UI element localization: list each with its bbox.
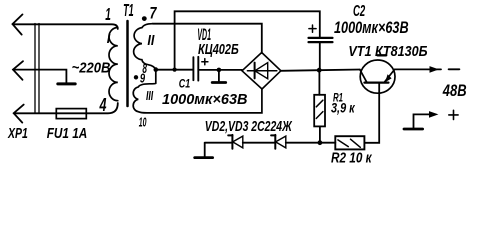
zener VD2	[231, 135, 233, 149]
ground at C1 node	[218, 70, 220, 81]
output wire minus	[395, 68, 441, 70]
svg-text:Т1: Т1	[123, 0, 134, 20]
chassis ground at output	[404, 128, 423, 131]
wire VD3 to node	[286, 142, 336, 144]
C2 lead down	[319, 42, 321, 70]
VT1 emitter diagonal	[384, 69, 394, 82]
VT1 emitter arrow	[385, 74, 392, 82]
connector XP1 pin arrow middle	[13, 61, 23, 80]
junction dot 9 polarity	[134, 75, 138, 79]
C2 plus sign	[309, 25, 316, 32]
main line bridge to transistor	[281, 70, 360, 71]
svg-text:R2 10 к: R2 10 к	[331, 150, 373, 167]
svg-text:3,9 к: 3,9 к	[331, 100, 355, 116]
R1 power slashes	[316, 100, 323, 118]
transformer T1 winding II	[134, 24, 156, 70]
chassis ground bar (mains)	[58, 82, 75, 85]
wire L (arrow1 to winding I top)	[13, 24, 118, 29]
C1 plus sign	[202, 59, 208, 65]
wire rail vertical	[175, 11, 320, 69]
svg-text:С1: С1	[179, 78, 190, 90]
svg-text:ХР1: ХР1	[7, 126, 28, 142]
resistor R1 body	[314, 95, 325, 127]
R2 power slashes	[338, 139, 360, 147]
svg-text:1000мк×63В: 1000мк×63В	[334, 19, 409, 37]
junction C2/R1/main	[317, 68, 322, 73]
connector XP1 boundary lines	[35, 24, 39, 114]
wire terminal 7 to bridge top	[153, 24, 262, 53]
svg-text:III: III	[146, 89, 154, 103]
svg-text:4: 4	[99, 95, 107, 115]
fuse FU1	[56, 109, 86, 119]
capacitor C2 plates	[309, 38, 333, 42]
VD1 inner diode	[247, 70, 276, 72]
wire bottom pin to fuse and winding I bottom	[14, 103, 118, 113]
svg-text:II: II	[147, 33, 155, 49]
wire ground to VD2	[205, 142, 233, 144]
output plus terminal wire	[414, 114, 432, 127]
svg-text:48В: 48В	[442, 82, 467, 100]
connector XP1 pin arrow bottom	[14, 105, 24, 123]
svg-text:~220В: ~220В	[72, 60, 111, 77]
output arrowhead plus	[429, 111, 438, 118]
wire VD2 to VD3	[243, 142, 275, 144]
transformer T1 winding III	[133, 70, 262, 113]
svg-text:КЦ402Б: КЦ402Б	[198, 41, 239, 58]
node 8-9 junction wire to C1	[156, 69, 193, 71]
svg-text:VD2,VD3 2С224Ж: VD2,VD3 2С224Ж	[205, 118, 293, 135]
transformer T1 winding I	[109, 28, 118, 101]
plus sign at output	[449, 110, 458, 119]
VT1 base bar	[365, 81, 389, 83]
svg-text:1000мк×63В: 1000мк×63В	[162, 92, 248, 108]
VT1 collector diagonal	[360, 70, 367, 83]
svg-text:VT1 КТ8130Б: VT1 КТ8130Б	[348, 43, 428, 60]
wire middle pin to chassis	[13, 70, 66, 83]
bridge rectifier VD1 diamond	[242, 53, 281, 90]
svg-text:С2: С2	[353, 3, 365, 20]
svg-text:FU1 1А: FU1 1А	[47, 126, 88, 142]
resistor R2 body	[335, 136, 364, 149]
junction rail/C1	[173, 68, 177, 72]
svg-text:7: 7	[150, 4, 158, 23]
svg-text:9: 9	[140, 71, 145, 85]
R2 right lead to base	[364, 83, 379, 143]
resistor R1 leads	[318, 70, 321, 143]
svg-text:10: 10	[139, 116, 147, 130]
capacitor C1 plates	[193, 57, 198, 81]
wire C1 to bridge left	[198, 69, 242, 71]
transformer core	[126, 21, 129, 106]
junction node 8-9	[154, 67, 159, 72]
output arrowhead minus	[430, 66, 439, 73]
transistor VT1 circle	[360, 60, 395, 93]
zener chain ground	[204, 143, 206, 156]
svg-text:I: I	[107, 32, 111, 46]
zener VD3	[274, 135, 276, 149]
svg-text:1: 1	[105, 4, 111, 24]
junction dot 7 polarity	[142, 16, 147, 21]
junction R1/R2/zeners	[318, 140, 323, 145]
junction C1/ground	[217, 68, 222, 73]
output minus dash	[449, 68, 460, 70]
VT1 text dash mark	[378, 54, 387, 56]
connector XP1 pin arrow top	[13, 14, 23, 34]
